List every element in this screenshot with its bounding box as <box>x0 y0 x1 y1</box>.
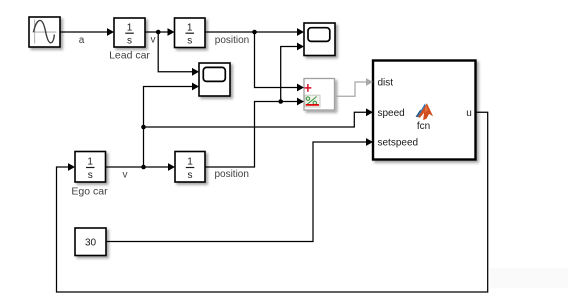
wire sine to Lead car, signal a <box>60 28 114 46</box>
svg-text:1: 1 <box>127 23 133 34</box>
wire sum out to dist (commented, gray) <box>335 78 374 96</box>
MATLAB logo <box>416 103 434 120</box>
wire ego position out <box>205 98 304 180</box>
svg-text:s: s <box>187 36 192 47</box>
wire speed to fcn block <box>144 108 374 127</box>
wire v down to scope2 in1 <box>158 32 199 76</box>
node v lead <box>156 30 161 35</box>
svg-text:1: 1 <box>187 157 193 168</box>
svg-text:1: 1 <box>187 23 193 34</box>
svg-text:setspeed: setspeed <box>378 138 419 149</box>
svg-text:v: v <box>151 35 156 46</box>
wire ego position up to scope1 in2 <box>281 43 304 102</box>
constant 30 <box>75 228 106 256</box>
svg-text:a: a <box>79 35 85 46</box>
svg-text:position: position <box>214 169 248 180</box>
svg-text:s: s <box>188 170 193 181</box>
integrator (lead position) <box>175 18 206 48</box>
MATLAB Function block <box>373 61 476 160</box>
sine wave source block <box>29 17 60 47</box>
wire ego v up to scope2 in2 <box>144 83 200 167</box>
node speed branch <box>141 125 146 130</box>
scope2 middle <box>199 63 230 96</box>
svg-text:Ego car: Ego car <box>71 186 108 198</box>
svg-text:s: s <box>88 170 93 181</box>
svg-text:u: u <box>466 108 472 119</box>
svg-text:s: s <box>127 36 132 47</box>
svg-text:30: 30 <box>85 237 97 248</box>
faint artifact bottom-right <box>490 268 568 288</box>
scope1 top right <box>304 23 335 56</box>
node lead position <box>252 30 257 35</box>
svg-text:dist: dist <box>378 78 394 89</box>
integrator Lead car <box>109 18 150 62</box>
integrator Ego car <box>71 152 108 198</box>
node ego position <box>278 99 283 104</box>
wire Ego car v out <box>106 163 176 180</box>
svg-text:speed: speed <box>378 108 405 119</box>
wire lead position down to sum in1 <box>255 32 305 91</box>
svg-text:Lead car: Lead car <box>109 50 150 62</box>
wire lead position <box>205 28 304 46</box>
wire constant 30 to setspeed <box>106 138 373 241</box>
sum block (commented out) <box>304 79 335 111</box>
svg-text:1: 1 <box>87 157 93 168</box>
node ego v <box>141 165 146 170</box>
svg-text:position: position <box>215 35 249 46</box>
wire u feedback to Ego car <box>57 112 488 292</box>
integrator (ego position) <box>175 152 205 183</box>
svg-text:v: v <box>123 170 128 181</box>
wire Lead car v out <box>145 28 175 45</box>
svg-text:fcn: fcn <box>417 121 430 132</box>
